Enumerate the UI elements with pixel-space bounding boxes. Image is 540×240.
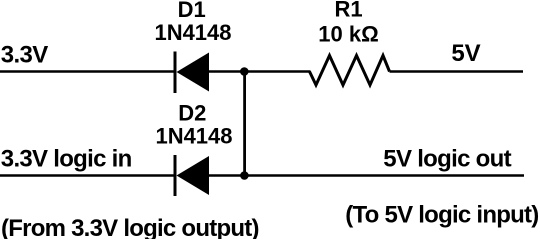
resistor R1 zigzag (310, 56, 390, 86)
wire D1 anode to node A (209, 70, 246, 73)
wire vertical node A to node B (243, 72, 246, 176)
diode D2 cathode bar (174, 155, 177, 196)
svg-text:1N4148: 1N4148 (155, 124, 232, 149)
wire 3.3V input to D1 cathode (0, 70, 175, 73)
diode D1 anode triangle (177, 53, 210, 92)
svg-text:(To 5V logic input): (To 5V logic input) (345, 201, 539, 228)
junction node B (240, 171, 249, 180)
wire node B to 5V logic out (244, 174, 524, 177)
svg-text:1N4148: 1N4148 (154, 20, 231, 45)
svg-text:D2: D2 (178, 101, 206, 126)
diode D1 cathode bar (174, 52, 177, 94)
svg-text:3.3V: 3.3V (1, 42, 49, 69)
svg-text:D1: D1 (178, 0, 206, 22)
wire node A to resistor R1 (244, 70, 311, 73)
svg-text:R1: R1 (334, 0, 362, 22)
svg-text:3.3V logic in: 3.3V logic in (1, 146, 133, 173)
wire 3.3V logic in to D2 cathode (0, 174, 175, 177)
svg-text:5V: 5V (451, 40, 480, 67)
svg-text:(From 3.3V logic output): (From 3.3V logic output) (1, 215, 260, 239)
wire resistor R1 to 5V (390, 70, 524, 73)
diode D2 anode triangle (177, 156, 210, 195)
svg-text:5V logic out: 5V logic out (383, 146, 511, 173)
svg-text:10 kΩ: 10 kΩ (318, 22, 378, 47)
junction node A (240, 67, 249, 76)
wire D2 anode to node B (209, 174, 246, 177)
